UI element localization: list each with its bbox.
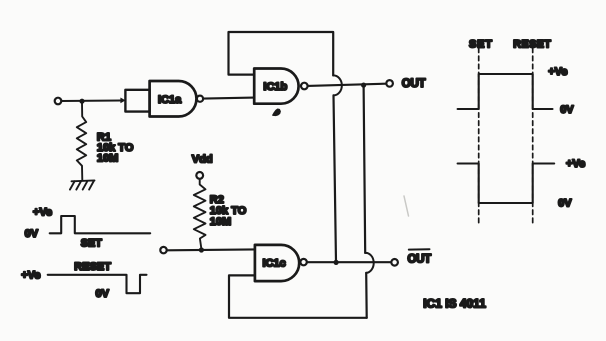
wire IC1a output to IC1b input <box>203 98 254 99</box>
svg-text:0V: 0V <box>560 104 574 116</box>
node junction J4 <box>361 83 366 88</box>
wire reset input to IC1c <box>167 248 255 251</box>
R1 value label <box>97 131 134 164</box>
wire set input to IC1a <box>62 99 121 102</box>
faint scan mark <box>404 196 409 216</box>
svg-text:0V: 0V <box>558 198 572 210</box>
dashed line at RESET instant <box>532 48 534 223</box>
svg-text:SET: SET <box>81 238 102 250</box>
svg-text:10M: 10M <box>210 216 231 228</box>
svg-text:+Ve: +Ve <box>548 66 567 78</box>
power Vdd terminal <box>192 153 213 179</box>
wire hop over OUT line <box>333 75 342 95</box>
svg-text:IC1 IS 4011: IC1 IS 4011 <box>423 297 486 311</box>
svg-text:+Ve: +Ve <box>21 269 40 281</box>
ground <box>70 180 95 189</box>
svg-text:OUT: OUT <box>408 254 432 266</box>
svg-text:RESET: RESET <box>74 261 111 273</box>
OUT waveform in timing diagram <box>458 66 575 116</box>
svg-text:+Ve: +Ve <box>566 158 585 170</box>
wire vertical from J4 down to bottom hop <box>364 85 366 253</box>
NAND gate IC1a <box>150 81 203 117</box>
terminal OUT <box>386 80 393 87</box>
svg-text:OUT: OUT <box>402 78 426 90</box>
IC1a input tie box <box>125 90 149 112</box>
resistor R2 <box>194 179 206 248</box>
NAND gate IC1c <box>255 245 307 281</box>
wire vertical from hop to bottom loop <box>365 273 368 318</box>
svg-text:0V: 0V <box>96 288 110 300</box>
svg-text:IC1c: IC1c <box>263 258 286 270</box>
svg-text:IC1b: IC1b <box>263 81 287 93</box>
svg-text:R2: R2 <box>210 194 224 206</box>
svg-text:10M: 10M <box>97 153 118 165</box>
svg-text:0V: 0V <box>25 228 39 240</box>
wire vertical from hop down to node J5 <box>334 95 337 262</box>
node junction J1 <box>79 99 84 104</box>
NAND gate IC1b <box>254 69 307 104</box>
svg-text:+Ve: +Ve <box>33 207 52 219</box>
OUT-bar waveform in timing diagram <box>458 158 586 210</box>
dashed line at SET instant <box>478 48 480 223</box>
wire OUT-bar line <box>307 261 390 263</box>
node junction J5 <box>334 260 339 265</box>
wire feedback top loop <box>229 32 334 75</box>
RESET pulse waveform <box>21 261 146 300</box>
wire hop over OUT-bar line <box>365 253 374 273</box>
R2 value label <box>210 194 247 228</box>
terminal OUT-bar <box>391 259 398 266</box>
resistor R1 <box>77 103 86 181</box>
SET pulse waveform <box>25 207 151 250</box>
label OUT-bar <box>408 249 432 265</box>
svg-text:Vdd: Vdd <box>192 153 213 165</box>
terminal set-input <box>55 98 62 105</box>
wire OUT line <box>308 84 386 86</box>
terminal reset-input <box>160 247 166 253</box>
node junction J3 <box>199 247 204 252</box>
wire feedback bottom loop <box>229 275 367 317</box>
node blob at IC1a input <box>120 98 125 104</box>
printing smudge below IC1b <box>273 109 280 115</box>
svg-text:IC1a: IC1a <box>158 94 182 106</box>
svg-text:SET: SET <box>469 38 493 50</box>
